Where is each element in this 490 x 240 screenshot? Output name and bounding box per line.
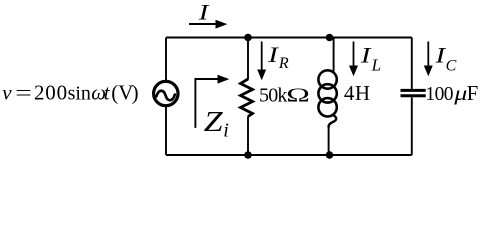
svg-text:Ω: Ω — [286, 83, 310, 106]
source V1: sine symbol — [156, 91, 174, 101]
svg-text:I: I — [267, 42, 279, 67]
svg-text:50k: 50k — [259, 85, 287, 107]
current arrow I (top) — [189, 23, 217, 25]
capacitor C: top plate — [401, 89, 426, 92]
svg-text:i: i — [223, 119, 229, 141]
svg-text:I: I — [360, 43, 372, 68]
svg-text:): ) — [132, 81, 139, 105]
wire: left lower (source to bottom wire) — [165, 106, 167, 155]
IC arrow — [427, 42, 429, 67]
svg-text:L: L — [371, 55, 381, 74]
svg-text:=: = — [15, 81, 32, 105]
source V1: AC source circle — [154, 81, 178, 105]
wire: resistor branch lower — [247, 117, 249, 156]
node: top resistor junction — [244, 34, 252, 42]
node: bottom resistor junction — [244, 151, 252, 159]
wire: inductor branch lower lead — [328, 125, 330, 155]
svg-text:C: C — [446, 57, 457, 74]
svg-text:100: 100 — [425, 84, 453, 105]
wire: capacitor branch lower — [411, 97, 413, 155]
capacitor C: bottom plate — [401, 94, 426, 97]
inductor L 4H: coil loops — [318, 70, 336, 88]
IL arrow — [353, 42, 355, 67]
svg-text:sin: sin — [68, 83, 91, 105]
svg-text:v: v — [2, 81, 12, 105]
Zi arrow — [195, 79, 219, 128]
svg-text:t: t — [104, 81, 111, 105]
svg-text:4H: 4H — [344, 81, 371, 105]
node: bottom inductor junction — [326, 151, 334, 159]
node: top inductor junction — [326, 34, 334, 42]
svg-text:F: F — [467, 81, 479, 105]
wire: left upper (source to top wire) — [165, 38, 167, 82]
svg-text:μ: μ — [453, 82, 467, 106]
svg-text:R: R — [278, 55, 289, 72]
IR arrow — [261, 42, 263, 71]
svg-text:Z: Z — [204, 105, 223, 137]
wire: inductor branch upper lead — [333, 38, 335, 73]
wire: top horizontal — [166, 37, 412, 39]
svg-text:(V: (V — [111, 81, 133, 105]
svg-text:200: 200 — [34, 81, 68, 105]
resistor R 50k: zigzag — [241, 79, 253, 117]
wire: resistor branch upper — [247, 38, 249, 80]
wire: bottom horizontal — [166, 154, 412, 156]
svg-text:I: I — [198, 0, 210, 25]
wire: capacitor branch upper — [411, 38, 413, 89]
